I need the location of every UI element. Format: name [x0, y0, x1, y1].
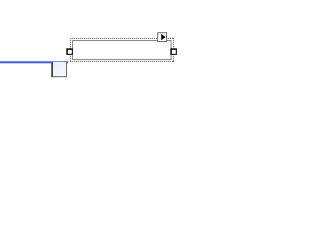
canvas background — [0, 0, 202, 157]
wire (selection marquee bottom edge) — [70, 60, 174, 62]
node (marquee corner dot) — [173, 61, 174, 62]
node (left resize handle) — [66, 48, 73, 55]
node (right resize handle) — [170, 48, 177, 55]
wire W1 (blue signal wire) — [0, 61, 68, 63]
component B1 (smart tag action button) — [158, 33, 167, 42]
wire (selection marquee top edge) — [70, 37, 174, 39]
component U1 (selected control body) — [73, 41, 172, 60]
wire (selection marquee left edge) — [69, 40, 71, 62]
wire (selection marquee right edge) — [172, 38, 174, 62]
node A (terminal square) — [51, 62, 67, 77]
